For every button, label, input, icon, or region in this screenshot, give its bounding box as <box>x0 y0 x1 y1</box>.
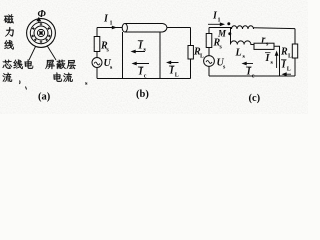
svg-text:L: L <box>175 73 179 79</box>
shield current marks in annulus <box>47 27 50 30</box>
wire c bottom <box>209 75 295 77</box>
svg-text:L: L <box>235 48 242 59</box>
current IL arrow+label (b) <box>169 62 179 64</box>
current Is label+arrow (b) <box>138 40 144 42</box>
label 屏蔽层电流 (shield layer current) <box>45 60 54 69</box>
current Ic arrow+label (c) <box>244 63 253 65</box>
wire c right <box>294 29 296 44</box>
wire b top-right <box>167 27 191 29</box>
shield ground wire right (b) <box>159 32 161 79</box>
coax cable cylinder <box>122 24 127 32</box>
dot primary <box>227 22 230 25</box>
svg-text:(b): (b) <box>136 89 149 100</box>
dot secondary <box>228 32 231 35</box>
current Is arrow+label (c) <box>276 53 278 68</box>
shield ground wire left (b) <box>122 32 124 79</box>
current Ic arrow+label (b) <box>134 63 149 65</box>
shield outer circle <box>30 22 51 43</box>
shield branch stub <box>230 28 232 45</box>
wire c top <box>209 27 232 29</box>
wire b right <box>190 28 192 46</box>
leader line to shield text <box>47 46 56 61</box>
comma mark <box>19 81 22 85</box>
current I1 arrow (c) <box>208 23 223 25</box>
svg-text:R: R <box>280 47 288 58</box>
svg-text:L: L <box>288 54 292 60</box>
core wire circle <box>37 29 44 36</box>
shield inner circle <box>34 26 48 40</box>
svg-text:1: 1 <box>110 21 113 27</box>
label 磁力线 (magnetic force lines), vertical <box>4 14 14 23</box>
leader line to core text <box>29 47 36 61</box>
svg-text:c: c <box>144 74 147 80</box>
svg-text:M: M <box>217 29 227 39</box>
current ground arrow (c) <box>284 73 291 75</box>
resistor rs <box>254 43 274 49</box>
magnetic field line (outer circle) <box>27 19 56 48</box>
svg-text:L: L <box>200 54 204 60</box>
source Us (b) <box>92 58 102 68</box>
svg-text:r: r <box>262 35 266 46</box>
wire flux arrow up to Phi <box>38 19 40 23</box>
core current symbol (into page) <box>39 31 42 34</box>
stray tick mark <box>26 87 27 90</box>
resistor Rs (b) <box>94 37 100 52</box>
wire b top-left <box>97 27 123 29</box>
resistor RL (c) <box>292 44 297 58</box>
wire c top-right <box>254 27 296 30</box>
resistor Rs (c) <box>206 34 212 48</box>
resistor RL (b) <box>188 46 193 60</box>
wire c left top <box>208 28 210 34</box>
wire b bottom <box>97 78 191 80</box>
svg-text:(c): (c) <box>249 93 261 104</box>
svg-text:(a): (a) <box>38 92 51 103</box>
inductor Ls coil <box>231 41 254 45</box>
svg-text:L: L <box>287 67 291 73</box>
current IL label (c) <box>281 59 287 61</box>
current I1 arrow (b) <box>112 26 117 30</box>
label 芯线电流 (core wire current) <box>3 60 12 69</box>
wire b left <box>96 28 98 37</box>
source Us (c) <box>204 56 215 67</box>
wire rs to down <box>274 46 280 76</box>
inductor top coil (center conductor) <box>232 26 254 29</box>
